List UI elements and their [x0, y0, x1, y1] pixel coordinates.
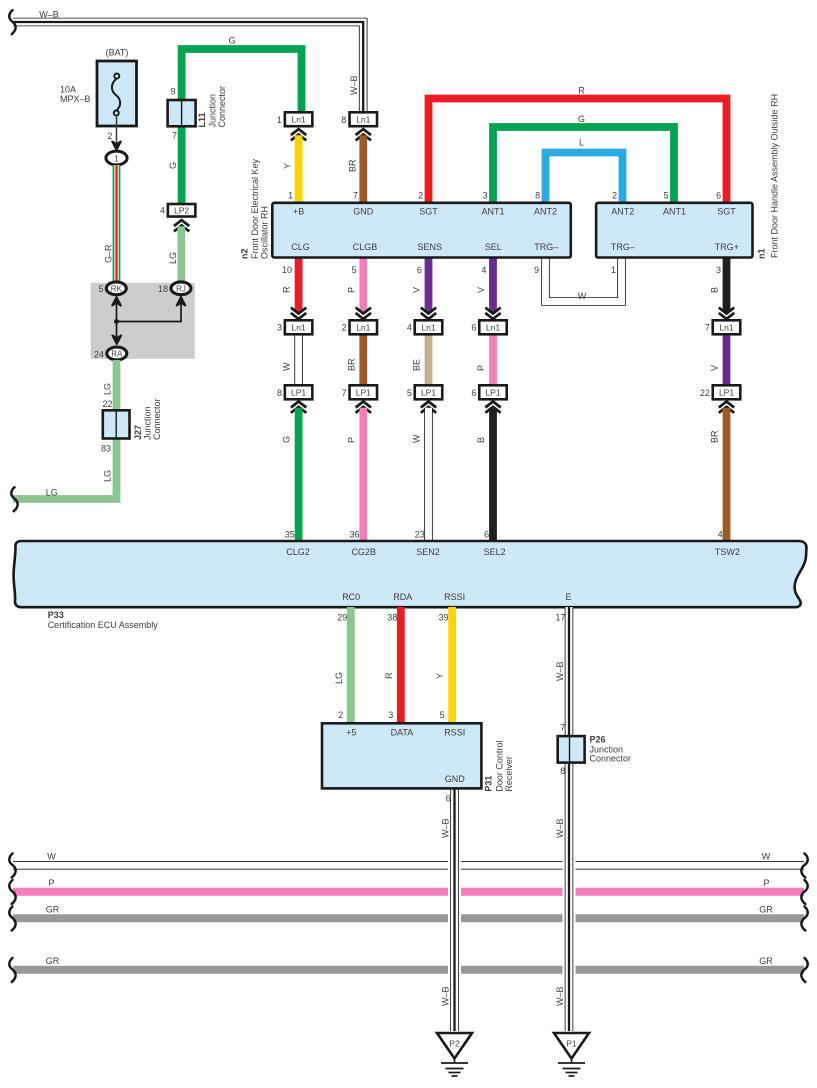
break symbol top-left [9, 10, 15, 34]
svg-text:B: B [476, 437, 486, 443]
svg-text:6: 6 [471, 323, 476, 333]
svg-text:LG: LG [334, 672, 344, 684]
chevron below Ln1 pin8 [356, 129, 371, 135]
wire fuse output pin 2 [116, 116, 118, 144]
svg-text:35: 35 [285, 530, 295, 540]
wire B down to ECU [489, 408, 497, 542]
svg-text:n1: n1 [757, 248, 767, 259]
svg-text:SGT: SGT [717, 207, 736, 217]
svg-text:9: 9 [534, 265, 539, 275]
svg-text:6: 6 [446, 794, 451, 804]
connector Ln1 pin 3 [285, 320, 313, 334]
connector LP1 pin 8 [285, 385, 313, 399]
svg-text:GR: GR [759, 905, 773, 915]
wire W horizontal harness [13, 861, 804, 870]
svg-text:8: 8 [277, 388, 282, 398]
wire R loop SGT to SGT [429, 99, 727, 204]
junction connector J27 [103, 410, 130, 438]
ECU P31 Door Control Receiver [322, 723, 481, 788]
svg-text:39: 39 [439, 613, 449, 623]
wire below oscillator at x=493.0 [489, 256, 497, 312]
svg-text:5: 5 [98, 284, 103, 294]
chevron below LP1 [485, 402, 500, 408]
break symbol LG [11, 487, 17, 511]
wire LG from LP2 to node RJ [177, 226, 185, 282]
svg-text:LP2: LP2 [174, 205, 189, 215]
svg-text:5: 5 [407, 388, 412, 398]
svg-text:P: P [476, 365, 486, 371]
svg-text:9: 9 [170, 87, 175, 97]
svg-text:6: 6 [471, 388, 476, 398]
svg-text:R: R [282, 286, 292, 293]
svg-text:W–B: W–B [441, 986, 451, 1006]
svg-text:Front Door Electrical Key: Front Door Electrical Key [250, 158, 260, 259]
svg-text:17: 17 [555, 613, 565, 623]
wire below oscillator at x=428.5 [425, 256, 433, 312]
svg-text:LP1: LP1 [421, 388, 436, 398]
svg-text:RK: RK [111, 285, 123, 294]
svg-text:P: P [763, 878, 769, 888]
svg-text:6: 6 [417, 265, 422, 275]
svg-text:4: 4 [407, 323, 412, 333]
svg-text:Junction: Junction [208, 94, 218, 128]
svg-text:5: 5 [664, 190, 669, 200]
svg-text:G: G [228, 36, 235, 46]
wire Y to oscillator +B [295, 135, 303, 203]
wire W loop TRG- to TRG- [546, 257, 622, 302]
svg-text:6: 6 [484, 530, 489, 540]
arrow into node 1 [112, 142, 121, 150]
svg-text:Connector: Connector [217, 86, 227, 128]
arrow into RK [116, 304, 118, 322]
svg-text:7: 7 [705, 323, 710, 333]
wire G down to ECU [295, 408, 303, 542]
ECU P33 Certification ECU Assembly (band) [14, 541, 807, 607]
svg-text:GND: GND [445, 774, 466, 784]
svg-text:2: 2 [612, 190, 617, 200]
column x=493.0: chevron down [485, 308, 500, 314]
svg-text:B: B [710, 287, 720, 293]
wire below oscillator at x=363.3 [359, 256, 367, 312]
svg-text:Front Door Handle Assembly Out: Front Door Handle Assembly Outside RH [770, 94, 780, 258]
svg-text:SGT: SGT [419, 207, 438, 217]
svg-text:G: G [282, 436, 292, 443]
svg-text:n2: n2 [240, 248, 250, 259]
svg-text:22: 22 [102, 399, 112, 409]
svg-text:LP1: LP1 [291, 388, 306, 398]
svg-text:TSW2: TSW2 [715, 547, 740, 557]
svg-text:38: 38 [387, 613, 397, 623]
svg-text:7: 7 [342, 388, 347, 398]
connector Ln1 pin 6 [479, 320, 507, 334]
svg-text:CG2B: CG2B [351, 547, 376, 557]
svg-text:Certification ECU Assembly: Certification ECU Assembly [48, 620, 159, 630]
svg-text:Ln1: Ln1 [421, 323, 435, 333]
svg-text:CLG: CLG [291, 242, 310, 252]
svg-text:ANT1: ANT1 [663, 207, 686, 217]
svg-text:23: 23 [415, 530, 425, 540]
svg-text:Receiver: Receiver [504, 756, 514, 792]
wire BR between Ln1 and LP1 [359, 334, 367, 386]
svg-text:2: 2 [338, 710, 343, 720]
connector LP2 pin 4 [168, 204, 196, 217]
wire W between Ln1 and LP1 [294, 334, 303, 386]
svg-text:Door Control: Door Control [495, 741, 505, 792]
svg-text:Junction: Junction [143, 406, 153, 440]
svg-text:GND: GND [353, 207, 374, 217]
wire LG from RA through J27 to harness break [13, 360, 117, 499]
svg-text:W–B: W–B [349, 75, 359, 95]
svg-text:7: 7 [172, 131, 177, 141]
svg-text:3: 3 [388, 710, 393, 720]
svg-text:5: 5 [352, 265, 357, 275]
svg-text:4: 4 [718, 530, 723, 540]
svg-text:BE: BE [412, 359, 422, 371]
svg-text:22: 22 [700, 388, 710, 398]
connector Ln1 pin 7 [713, 320, 741, 334]
svg-text:RSSI: RSSI [444, 727, 465, 737]
svg-text:Ln1: Ln1 [356, 323, 370, 333]
svg-text:J27: J27 [133, 425, 143, 440]
column x=298.6: chevron down [291, 308, 306, 314]
svg-text:W–B: W–B [39, 10, 59, 20]
svg-text:2: 2 [418, 190, 423, 200]
svg-text:CLG2: CLG2 [286, 547, 310, 557]
svg-text:P: P [48, 878, 54, 888]
wire GR horizontal harness 1 [13, 914, 804, 922]
wire P down to ECU [359, 408, 367, 542]
svg-text:W–B: W–B [555, 818, 565, 838]
svg-text:+5: +5 [346, 727, 356, 737]
ground P1 [554, 1033, 589, 1059]
svg-text:P2: P2 [449, 1038, 460, 1048]
wire dot to RA with arrow [116, 322, 118, 338]
wire BR down to ECU [723, 408, 731, 542]
junction dot [114, 319, 119, 324]
connector Ln1 pin 8 [350, 112, 378, 126]
chevron below LP1 [421, 402, 436, 408]
node RA pin 24 [107, 347, 127, 360]
svg-text:RA: RA [111, 350, 123, 359]
svg-text:RC0: RC0 [342, 592, 360, 602]
wire P horizontal harness [13, 888, 804, 896]
svg-text:ANT2: ANT2 [611, 207, 634, 217]
wire GR horizontal harness 2 [13, 966, 804, 974]
svg-text:29: 29 [337, 613, 347, 623]
svg-text:P33: P33 [48, 610, 64, 620]
svg-text:L11: L11 [197, 112, 207, 127]
svg-text:LG: LG [103, 383, 113, 395]
svg-text:W: W [762, 852, 771, 862]
wire dot to RJ [117, 304, 182, 322]
svg-text:SEL: SEL [485, 242, 502, 252]
connector LP1 pin 22 [713, 385, 741, 399]
svg-text:CLGB: CLGB [353, 242, 378, 252]
wire B below TRG+ [723, 256, 731, 312]
svg-text:Y: Y [283, 163, 293, 169]
svg-text:4: 4 [160, 206, 165, 216]
svg-text:3: 3 [277, 323, 282, 333]
svg-text:1: 1 [114, 154, 119, 163]
svg-text:W: W [282, 362, 292, 371]
svg-text:E: E [565, 592, 571, 602]
svg-text:RDA: RDA [393, 592, 412, 602]
svg-text:LG: LG [46, 488, 58, 498]
svg-text:5: 5 [440, 710, 445, 720]
connector n1 Front Door Handle Assembly Outside RH [596, 203, 752, 258]
svg-text:V: V [476, 287, 486, 293]
svg-text:TRG–: TRG– [611, 242, 635, 252]
svg-text:Ln1: Ln1 [292, 323, 306, 333]
svg-text:83: 83 [101, 444, 111, 454]
svg-text:24: 24 [94, 350, 104, 360]
svg-text:W–B: W–B [555, 986, 565, 1006]
svg-text:Y: Y [435, 673, 445, 679]
svg-text:7: 7 [560, 723, 565, 733]
svg-text:1: 1 [277, 115, 282, 125]
connector Ln1 pin 4 [415, 320, 443, 334]
wire Y RSSI to RSSI [448, 607, 456, 724]
node 1 [106, 151, 127, 165]
svg-text:6: 6 [716, 190, 721, 200]
svg-text:LP1: LP1 [356, 388, 371, 398]
svg-text:SENS: SENS [418, 242, 443, 252]
svg-text:10A: 10A [60, 85, 76, 95]
chevron below LP1 [356, 402, 371, 408]
svg-text:W–B: W–B [441, 818, 451, 838]
svg-text:V: V [710, 365, 720, 371]
svg-text:Ln1: Ln1 [486, 323, 500, 333]
svg-text:BR: BR [346, 358, 356, 371]
svg-text:W–B: W–B [555, 661, 565, 681]
chevron below LP2 [174, 220, 189, 226]
wire W down to ECU [424, 408, 433, 542]
wire G-R from node 1 to node RK [113, 165, 121, 282]
svg-text:Ln1: Ln1 [356, 114, 370, 124]
svg-text:P26: P26 [590, 735, 606, 745]
svg-text:P: P [346, 437, 356, 443]
wire V between Ln1 and LP1 [723, 334, 731, 386]
wire LG RC0 to +5 [347, 607, 355, 724]
chevron below LP1 [719, 402, 734, 408]
svg-text:8: 8 [341, 115, 346, 125]
svg-text:LP1: LP1 [485, 388, 500, 398]
svg-text:Ln1: Ln1 [292, 114, 306, 124]
ground P2 [437, 1033, 472, 1059]
svg-text:4: 4 [481, 265, 486, 275]
svg-text:P31: P31 [484, 776, 494, 792]
svg-text:18: 18 [158, 284, 168, 294]
svg-text:MPX–B: MPX–B [60, 94, 91, 104]
chevron below LP1 [291, 402, 306, 408]
svg-text:TRG–: TRG– [534, 242, 558, 252]
svg-text:7: 7 [353, 190, 358, 200]
svg-text:W: W [578, 291, 587, 301]
svg-text:W: W [412, 434, 422, 443]
svg-text:RSSI: RSSI [444, 592, 465, 602]
svg-text:Oscillator RH: Oscillator RH [260, 206, 270, 259]
column x=428.5: chevron down [421, 308, 436, 314]
svg-text:LG: LG [103, 470, 113, 482]
svg-text:Ln1: Ln1 [719, 323, 733, 333]
svg-text:8: 8 [560, 766, 565, 776]
svg-text:Connector: Connector [152, 398, 162, 440]
svg-text:GR: GR [759, 956, 773, 966]
svg-text:L: L [579, 138, 584, 148]
svg-text:G: G [168, 162, 178, 169]
svg-text:P: P [346, 287, 356, 293]
svg-text:10: 10 [282, 265, 292, 275]
chevron below Ln1 pin1 [291, 129, 306, 135]
svg-text:DATA: DATA [391, 727, 414, 737]
svg-text:1: 1 [611, 265, 616, 275]
connector LP1 pin 6 [479, 385, 507, 399]
connector Ln1 pin 2 [350, 320, 378, 334]
wire W-B from ECU E to ground P1 via P26 [563, 857, 576, 874]
svg-text:GR: GR [46, 956, 60, 966]
svg-text:(BAT): (BAT) [106, 48, 129, 58]
svg-text:BR: BR [347, 159, 357, 172]
svg-text:LP1: LP1 [719, 388, 734, 398]
svg-text:G: G [578, 114, 585, 124]
relay block (shaded) [91, 283, 195, 359]
svg-text:SEL2: SEL2 [484, 547, 506, 557]
svg-text:3: 3 [483, 190, 488, 200]
wire G loop ANT1 to ANT1 [493, 127, 674, 203]
svg-text:3: 3 [716, 265, 721, 275]
connector LP1 pin 7 [350, 385, 378, 399]
svg-text:2: 2 [342, 323, 347, 333]
node RJ pin 18 [171, 282, 191, 295]
svg-text:2: 2 [107, 131, 112, 141]
svg-text:RJ: RJ [176, 285, 186, 294]
wire P between Ln1 and LP1 [489, 334, 497, 386]
svg-text:36: 36 [349, 530, 359, 540]
svg-text:SEN2: SEN2 [416, 547, 440, 557]
wire BR to oscillator GND [359, 135, 367, 203]
svg-text:R: R [578, 86, 585, 96]
svg-text:TRG+: TRG+ [715, 242, 739, 252]
wire R RDA to DATA [397, 607, 405, 724]
fuse 10A MPX-B [97, 61, 137, 126]
node RK pin 5 [106, 282, 126, 295]
svg-text:V: V [412, 287, 422, 293]
svg-text:8: 8 [535, 190, 540, 200]
wire BE between Ln1 and LP1 [425, 334, 433, 386]
svg-text:W: W [47, 852, 56, 862]
column x=363.3: chevron down [356, 308, 371, 314]
column x=726.5: chevron down [719, 308, 734, 314]
connector Ln1 pin 1 [285, 112, 313, 126]
junction connector L11 [168, 100, 196, 126]
svg-text:ANT2: ANT2 [534, 207, 557, 217]
wire W-B battery feed (top) [13, 22, 363, 113]
wire W-B from P31 GND to ground P2 [448, 857, 461, 874]
svg-text:1: 1 [288, 190, 293, 200]
svg-text:GR: GR [46, 905, 60, 915]
svg-text:R: R [384, 672, 394, 679]
wire L loop ANT2 to ANT2 [546, 153, 623, 204]
svg-text:P1: P1 [566, 1038, 577, 1048]
junction connector P26 [558, 736, 585, 763]
svg-text:LG: LG [168, 252, 178, 264]
connector LP1 pin 5 [415, 385, 443, 399]
wire G from junction connector L11 to connector Ln1 pin 1 [182, 49, 302, 204]
svg-text:Connector: Connector [590, 754, 632, 764]
wire below oscillator at x=298.6 [295, 256, 303, 312]
svg-text:ANT1: ANT1 [481, 207, 504, 217]
svg-text:G–R: G–R [104, 244, 114, 263]
svg-text:+B: +B [293, 207, 304, 217]
svg-text:BR: BR [710, 430, 720, 443]
op connector n2 Front Door Electrical Key Oscillator RH [272, 203, 571, 258]
